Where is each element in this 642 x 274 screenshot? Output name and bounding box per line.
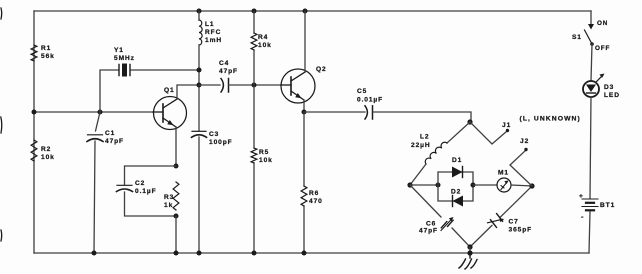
svg-text:R2: R2 — [41, 146, 51, 153]
resistor R4 10k — [251, 33, 272, 50]
svg-text:RFC: RFC — [205, 29, 221, 36]
node R4 top rail junction — [252, 9, 257, 14]
wire top supply rail — [34, 10, 591, 12]
svg-text:S1: S1 — [572, 34, 582, 41]
svg-text:100pF: 100pF — [209, 139, 233, 146]
svg-text:D1: D1 — [452, 157, 462, 164]
svg-text:R6: R6 — [309, 190, 319, 197]
wire R3 to rail — [175, 216, 177, 253]
connector J1 — [502, 122, 511, 132]
svg-text:BT1: BT1 — [600, 202, 615, 209]
node diode box right junction — [471, 183, 476, 188]
wire top vertex to J1 — [470, 122, 507, 144]
svg-text:365pF: 365pF — [509, 227, 533, 234]
svg-text:0.01µF: 0.01µF — [357, 97, 383, 104]
wire Q2 emitter — [303, 100, 305, 112]
svg-text:47pF: 47pF — [419, 228, 438, 235]
svg-text:-: - — [581, 212, 584, 221]
svg-text:R1: R1 — [41, 45, 51, 52]
svg-text:470: 470 — [309, 198, 323, 205]
wire lower-right edge — [470, 186, 532, 247]
svg-text:47pF: 47pF — [219, 68, 238, 75]
wire bottom vertex to rail — [469, 247, 471, 253]
wire C3 to rail — [198, 137, 200, 253]
node C4 junction B — [197, 83, 202, 88]
node R3 bottom junction — [174, 214, 179, 219]
wire switch to LED — [591, 44, 592, 81]
node C3 rail junction — [197, 251, 202, 256]
svg-text:L2: L2 — [420, 134, 430, 141]
wire C2 loop — [125, 166, 177, 216]
node emitter/R3 top junction — [174, 164, 179, 169]
svg-text:C1: C1 — [105, 130, 115, 137]
wire Q1 collector — [177, 85, 199, 99]
resistor R2 — [31, 140, 55, 161]
svg-text:Q2: Q2 — [316, 66, 327, 73]
ground — [459, 253, 477, 269]
svg-text:C3: C3 — [209, 131, 219, 138]
svg-text:R3: R3 — [164, 194, 174, 201]
svg-text:ON: ON — [597, 20, 608, 27]
wire top rail corner down to switch — [590, 11, 592, 24]
wire diode box to meter — [473, 184, 497, 186]
svg-text:+: + — [579, 193, 584, 200]
svg-text:1k: 1k — [164, 202, 173, 209]
wire emitter to C5 — [304, 111, 365, 113]
resistor R3 1k — [164, 182, 179, 210]
svg-text:R4: R4 — [258, 34, 268, 41]
capacitor C6 47pF (trimmer) — [419, 217, 454, 235]
inductor L2 22uH — [411, 134, 447, 165]
wire left vertex to diode box — [410, 184, 438, 186]
svg-text:(L, UNKNOWN): (L, UNKNOWN) — [520, 116, 581, 123]
wire C4 to Q2 base — [229, 84, 282, 86]
svg-text:R5: R5 — [259, 149, 269, 156]
wire right vertex to J2 — [510, 150, 532, 186]
wire diode box frame — [438, 172, 473, 201]
svg-text:OFF: OFF — [595, 45, 610, 52]
resistor R1 — [31, 45, 55, 61]
wire R4 column — [253, 11, 255, 253]
svg-text:D2: D2 — [451, 189, 461, 196]
svg-text:47pF: 47pF — [105, 138, 124, 145]
scan edge marks (left) — [0, 8, 3, 241]
node bridge left vertex — [407, 182, 412, 187]
wire bottom ground rail — [34, 252, 589, 254]
svg-text:10k: 10k — [41, 154, 55, 161]
node R4/R5 junction — [252, 83, 257, 88]
svg-text:D3: D3 — [604, 84, 614, 91]
capacitor C5 0.01uF — [357, 88, 383, 119]
node Q2 emitter junction — [302, 110, 307, 115]
wire crystal right lead to node — [131, 69, 199, 71]
svg-text:M1: M1 — [498, 170, 509, 177]
resistor R5 10k — [251, 148, 273, 164]
svg-text:22µH: 22µH — [411, 142, 431, 149]
svg-text:Q1: Q1 — [164, 87, 175, 94]
wire top-left edge lower lead — [410, 164, 426, 185]
switch S1 — [572, 20, 610, 52]
resistor R6 470 — [301, 186, 323, 206]
battery BT1 — [579, 193, 615, 221]
node emitter column rail junction — [174, 251, 179, 256]
wire R6 column — [303, 112, 305, 253]
crystal Y1 5MHz — [114, 47, 135, 77]
capacitor C2 0.1uF — [117, 180, 157, 195]
svg-text:0.1µF: 0.1µF — [135, 188, 157, 195]
node crystal/collector junction A — [197, 68, 202, 73]
svg-text:C6: C6 — [426, 221, 436, 228]
svg-text:10k: 10k — [258, 42, 272, 49]
inductor L1 RFC 1mH — [199, 20, 222, 45]
diode D2 — [451, 189, 463, 207]
svg-text:1mH: 1mH — [205, 37, 222, 44]
capacitor C3 100pF — [192, 131, 233, 146]
wire C5 to bridge top — [373, 112, 472, 122]
node bridge right vertex — [529, 183, 534, 188]
wire left rail — [33, 11, 35, 253]
node R6 rail junction — [302, 251, 307, 256]
transistor Q2 — [281, 66, 327, 103]
svg-text:J2: J2 — [520, 138, 529, 145]
LED D3 — [583, 74, 620, 100]
svg-text:L1: L1 — [205, 21, 215, 28]
connector J2 — [520, 138, 529, 151]
svg-text:LED: LED — [604, 92, 620, 99]
wire node to C4 — [199, 84, 220, 86]
wire top-left edge upper lead — [447, 122, 470, 143]
wire battery to rail — [589, 212, 590, 254]
node bridge rail junction — [467, 250, 472, 255]
svg-text:C5: C5 — [357, 88, 367, 95]
wire meter to right vertex — [511, 185, 532, 186]
capacitor C7 365pF (variable) — [488, 214, 533, 234]
node diode box left junction — [436, 183, 441, 188]
svg-text:5MHz: 5MHz — [114, 55, 135, 62]
wire lower-left edge — [410, 185, 470, 247]
wire Q1 emitter — [175, 127, 177, 166]
meter M1 — [497, 170, 511, 193]
node R5 rail junction — [252, 251, 257, 256]
node base-left rail junction — [32, 110, 37, 115]
svg-text:10k: 10k — [259, 157, 273, 164]
svg-text:Y1: Y1 — [114, 47, 124, 54]
svg-text:J1: J1 — [502, 122, 511, 129]
node C1 bottom rail junction — [92, 251, 97, 256]
svg-text:C7: C7 — [509, 219, 519, 226]
wire Q2 collector — [304, 11, 306, 72]
capacitor C1 47pF — [87, 130, 124, 145]
wire L1 top lead — [198, 11, 200, 20]
svg-text:56k: 56k — [41, 53, 55, 60]
node bridge top vertex — [467, 119, 472, 124]
wire crystal left lead — [100, 70, 118, 112]
svg-text:C4: C4 — [219, 60, 229, 67]
node L1 top rail junction — [197, 9, 202, 14]
wire C1 column — [94, 112, 100, 253]
diode D1 — [452, 157, 463, 178]
capacitor C4 47pF — [219, 60, 238, 92]
wire Q1 base line — [34, 111, 153, 113]
node Q2 collector rail junction — [303, 9, 308, 14]
node crystal/C1 junction — [98, 110, 103, 115]
svg-text:C2: C2 — [135, 180, 145, 187]
wire L1 to node column — [198, 45, 200, 131]
wire LED to battery — [590, 97, 591, 198]
node bridge bottom vertex — [467, 244, 472, 249]
transistor Q1 — [153, 87, 187, 130]
